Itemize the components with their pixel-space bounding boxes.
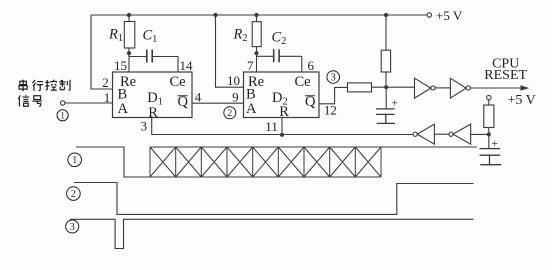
svg-text:3: 3 (141, 119, 148, 134)
svg-text:3: 3 (70, 222, 75, 233)
svg-text:3: 3 (331, 72, 336, 83)
svg-text:11: 11 (265, 119, 278, 134)
svg-text:+5 V: +5 V (436, 8, 463, 23)
svg-text:4: 4 (195, 90, 202, 105)
svg-text:+5 V: +5 V (508, 93, 536, 108)
svg-text:7: 7 (247, 58, 254, 73)
svg-text:R: R (148, 105, 158, 121)
svg-text:1: 1 (60, 110, 65, 120)
svg-text:14: 14 (180, 58, 194, 73)
svg-text:+: + (392, 97, 399, 109)
svg-text:6: 6 (308, 58, 315, 73)
svg-text:9: 9 (232, 90, 239, 105)
svg-text:B: B (118, 86, 128, 102)
svg-text:B: B (246, 86, 256, 102)
svg-text:RESET: RESET (484, 68, 527, 83)
svg-text:+: + (492, 138, 499, 150)
svg-text:2: 2 (71, 189, 76, 200)
svg-text:2: 2 (227, 109, 232, 119)
svg-text:15: 15 (114, 58, 127, 73)
svg-text:Q: Q (305, 94, 316, 110)
svg-text:A: A (118, 101, 129, 117)
svg-text:12: 12 (324, 103, 337, 118)
svg-text:R: R (279, 104, 289, 120)
svg-text:2: 2 (102, 75, 109, 90)
svg-text:1: 1 (72, 155, 77, 166)
svg-text:Ce: Ce (295, 74, 311, 90)
svg-text:10: 10 (227, 73, 240, 88)
svg-text:Q: Q (178, 94, 189, 110)
svg-text:A: A (246, 101, 257, 117)
svg-text:Ce: Ce (170, 74, 186, 90)
